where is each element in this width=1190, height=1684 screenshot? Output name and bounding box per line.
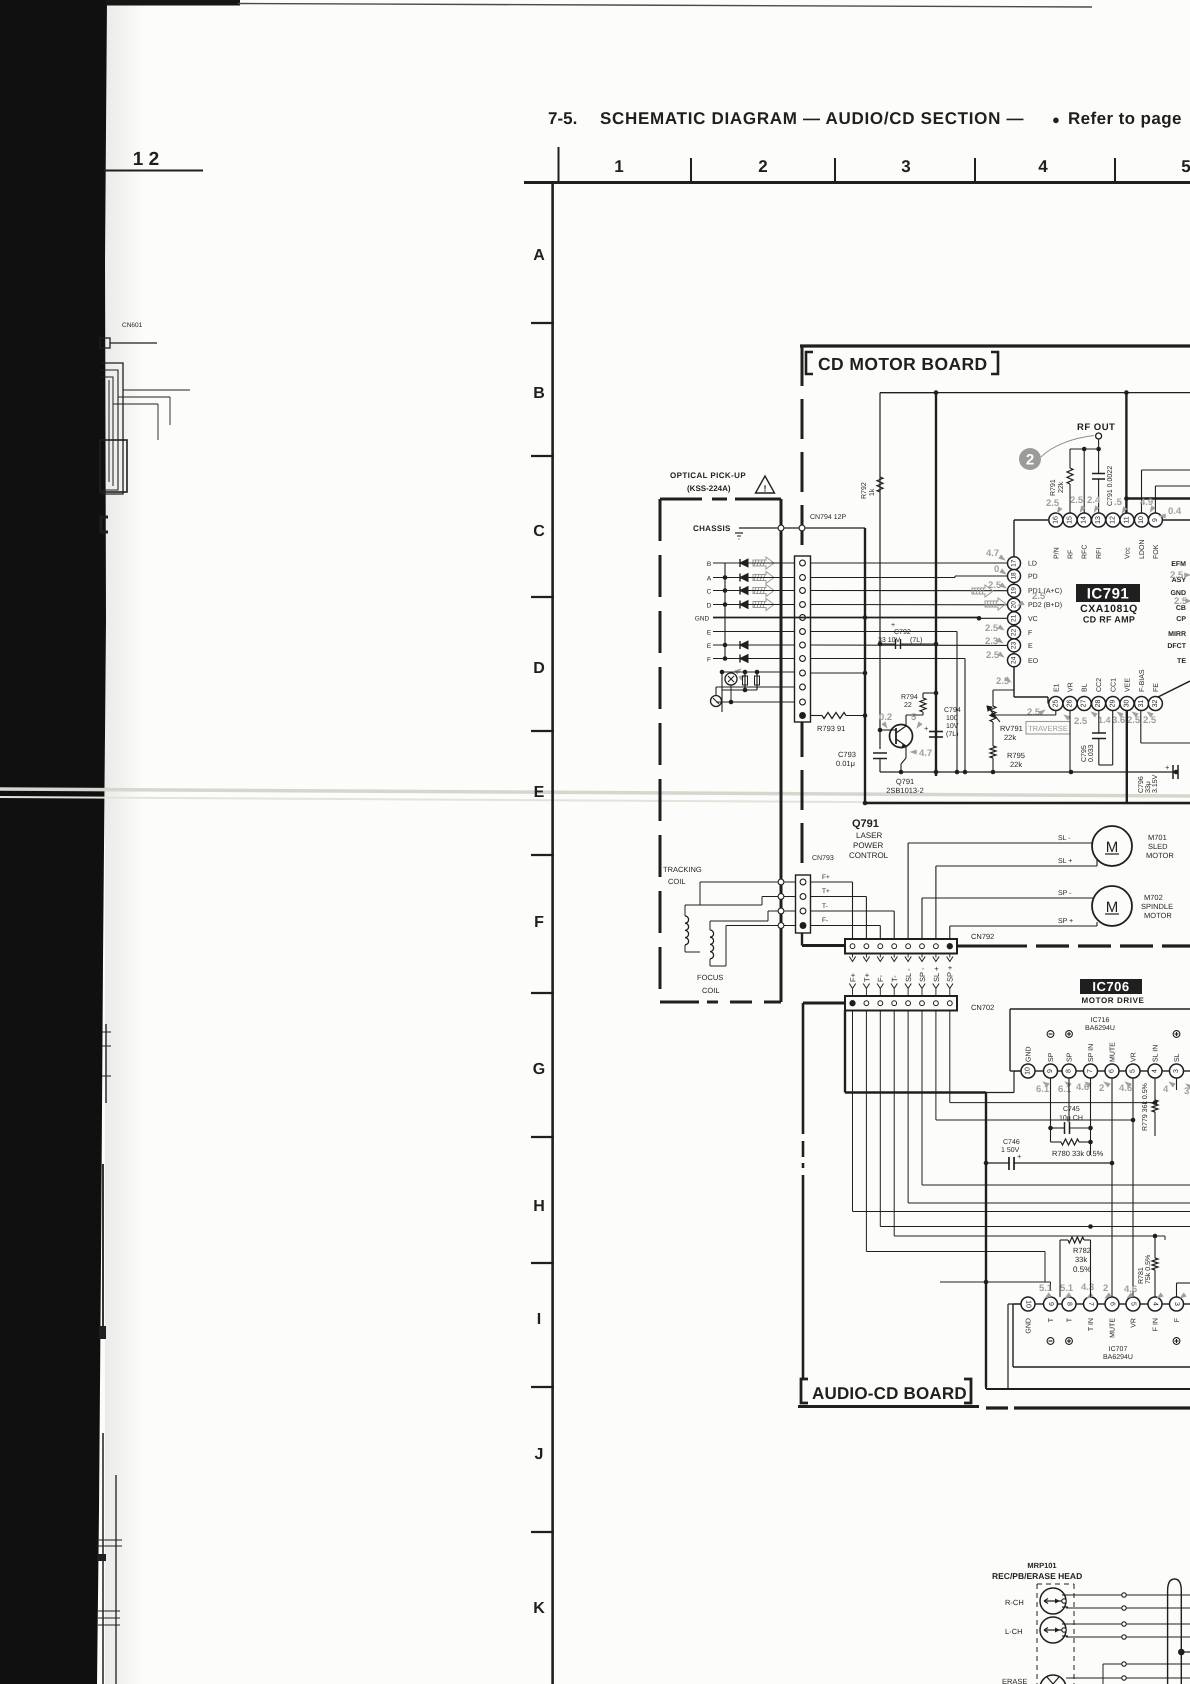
wire pin10 ic707 [1008,1303,1021,1305]
svg-text:9: 9 [1152,518,1159,522]
wire CN794 to IC791 rows [811,562,1008,564]
motor M701 sled [1092,826,1132,866]
gnd bus wire [713,617,979,619]
wire thick audio board left [844,1011,846,1093]
svg-text:PD2 (B+D): PD2 (B+D) [1028,601,1062,609]
svg-text:ERASE: ERASE [1002,1677,1027,1684]
svg-text:R794: R794 [901,694,918,701]
svg-text:Q791: Q791 [896,777,914,786]
svg-text:15: 15 [1067,516,1074,524]
svg-text:100: 100 [946,715,958,722]
svg-text:10V: 10V [946,723,959,730]
svg-text:R795: R795 [1007,751,1025,760]
svg-text:0.01μ: 0.01μ [836,759,855,768]
svg-text:F: F [707,657,711,664]
wire pin32 diag [1158,681,1190,697]
svg-text:T-: T- [822,903,828,910]
svg-text:2.5: 2.5 [1170,570,1184,581]
svg-text:19: 19 [1011,587,1018,595]
wire run t+ [865,1011,867,1252]
svg-text:OPTICAL PICK-UP: OPTICAL PICK-UP [670,471,746,480]
cable loop [1168,1579,1182,1684]
svg-text:RFI: RFI [1096,548,1103,559]
svg-text:10: 10 [1138,516,1145,524]
svg-text:4: 4 [1163,1084,1169,1095]
svg-text:CN793: CN793 [812,855,834,862]
svg-text:F-: F- [876,974,885,982]
svg-text:Vcc: Vcc [1125,547,1132,559]
svg-text:8: 8 [1066,1069,1073,1073]
svg-text:MOTOR: MOTOR [1144,911,1172,920]
svg-text:SL IN: SL IN [1153,1045,1160,1062]
svg-text:CC2: CC2 [1096,678,1103,692]
wire pin10 in [1142,469,1190,471]
connector CN794 pins [800,560,806,566]
svg-text:LASER: LASER [856,831,882,840]
scan shading near bar [0,0,1,1]
svg-text:LD: LD [1028,561,1037,568]
svg-text:RF: RF [1068,550,1075,559]
wire pin31 fbias [1140,711,1142,744]
svg-text:R791: R791 [1050,479,1057,496]
wire pin24 down [1013,667,1015,690]
svg-text:CXA1081Q: CXA1081Q [1080,603,1138,615]
svg-text:Refer to page: Refer to page [1068,109,1182,128]
wire pin9 down [1050,1078,1052,1142]
svg-text:FOK: FOK [1153,544,1160,559]
wire run t- [893,1011,895,1237]
resistor R782 33k [1060,1239,1068,1241]
connector CN792 pins [850,944,855,949]
L-CH head [1040,1617,1066,1643]
svg-text:R793 91: R793 91 [817,724,845,733]
svg-text:SP -: SP - [1058,890,1072,897]
svg-text:2.5: 2.5 [1046,498,1060,509]
svg-text:SL +: SL + [1058,858,1072,865]
IC716 body outline [1010,1008,1190,1010]
svg-text:+: + [924,724,929,733]
wire SP+ to motor [950,925,1097,927]
svg-text:VR: VR [1068,682,1075,692]
svg-text:IC716: IC716 [1091,1017,1110,1024]
svg-text:M702: M702 [1144,893,1163,902]
svg-text:5: 5 [1181,157,1190,176]
svg-text:13: 13 [1095,516,1102,524]
svg-text:33μ: 33μ [1145,781,1152,793]
svg-text:T IN: T IN [1088,1318,1095,1331]
svg-text:REC/PB/ERASE HEAD: REC/PB/ERASE HEAD [992,1571,1082,1581]
svg-text:MUTE: MUTE [1110,1318,1117,1338]
wire chassis to board [739,527,865,529]
svg-text:BA6294U: BA6294U [1085,1025,1115,1032]
svg-text:P/N: P/N [1052,547,1060,559]
svg-text:MRP101: MRP101 [1027,1561,1056,1570]
monitor photodiode PD [711,696,722,707]
wire pin25 jog [1055,711,1057,716]
svg-text:5.1: 5.1 [1039,1283,1053,1294]
wire pin6 MUTE long [1111,1078,1113,1297]
svg-text:D: D [707,603,712,610]
capacitor C795 0.033 [1098,711,1100,734]
svg-text:CHASSIS: CHASSIS [693,524,731,533]
wire thick rail y803 [865,802,1190,804]
paper crease row E [0,789,1190,796]
svg-text:SP: SP [1048,1052,1055,1062]
resistor R793 91 [811,715,822,717]
svg-text:3: 3 [901,157,910,176]
svg-text:GND: GND [1026,1318,1033,1334]
laser power wires [722,671,794,673]
light arrows pins19 20 [972,585,993,597]
head wires [1066,1594,1190,1596]
svg-text:R782: R782 [1073,1246,1091,1255]
svg-text:F: F [1174,1318,1181,1322]
svg-text:2.5: 2.5 [1127,715,1141,726]
svg-text:21: 21 [1011,614,1018,622]
head dashed box [1036,1584,1038,1684]
AUDIO-CD bottom dashed border [986,1406,1008,1409]
wire run sl+ [935,1011,937,1121]
svg-text:F+: F+ [848,972,857,982]
wire SL- to motor [908,842,1093,844]
optical pick-up box right edge [780,499,783,1002]
IC706 name plate [1080,979,1142,994]
callout 2 [1019,448,1041,470]
svg-text:.5: .5 [1114,497,1123,508]
resistor R792 1k [877,477,883,492]
grid column ticks [690,158,692,181]
wire pin3 stub [1176,1078,1178,1090]
wires pickup to CN793 [784,881,795,883]
svg-text:25: 25 [1052,700,1059,708]
svg-text:F-BIAS: F-BIAS [1139,669,1146,692]
IC791 left pins 17-24 [1008,557,1021,570]
svg-text:22k: 22k [1057,481,1065,493]
svg-text:R792: R792 [861,482,868,499]
svg-text:T+: T+ [862,972,871,982]
wire rfout bus [1070,448,1099,450]
svg-text:1 50V: 1 50V [1001,1147,1020,1154]
connector CN601 [100,338,110,348]
svg-text:9: 9 [1047,1302,1054,1306]
svg-text:Q791: Q791 [852,818,879,830]
wire CN793 stub down [801,933,803,946]
svg-text:3.15V: 3.15V [1152,774,1159,793]
svg-text:M701: M701 [1148,833,1167,842]
AUDIO-CD label underline [798,1405,979,1408]
wire thick to CN792 [802,944,845,947]
svg-text:C: C [707,589,712,596]
photodiode symbols [740,559,748,567]
svg-text:6: 6 [1109,1069,1116,1073]
svg-text:!: ! [764,484,767,494]
svg-text:CN601: CN601 [122,322,143,329]
grid row ticks [531,322,554,324]
capacitor C793 0.01u [873,752,887,754]
svg-text:RFC: RFC [1082,545,1089,559]
svg-text:C746: C746 [1003,1139,1020,1146]
svg-text:GND: GND [1026,1046,1033,1062]
svg-text:14: 14 [1081,516,1088,524]
light arrows into photodiodes [753,557,774,569]
svg-text:C745: C745 [1063,1106,1080,1113]
grid border horizontal [524,181,1190,184]
AUDIO-CD BOARD label [801,1379,808,1403]
svg-text:LDON: LDON [1139,540,1146,559]
svg-text:DFCT: DFCT [1167,643,1186,650]
wire run sp+ [949,1011,951,1103]
transistor Q791 2SB1013-2 [890,725,913,748]
connector CN702 body [845,996,957,1011]
svg-text:T+: T+ [822,888,830,895]
wire pin9 in [1155,485,1190,487]
svg-text:MUTE: MUTE [1110,1042,1117,1062]
svg-text:D: D [533,660,545,677]
svg-text:RF OUT: RF OUT [1077,422,1115,433]
motor M702 spindle [1092,886,1132,926]
svg-text:SLED: SLED [1148,842,1168,851]
svg-text:F: F [1028,630,1032,637]
svg-text:8: 8 [1066,1302,1073,1306]
svg-text:(7L): (7L) [946,730,958,738]
svg-text:4.7: 4.7 [986,548,999,559]
svg-text:2: 2 [1026,452,1034,469]
svg-text:2.5: 2.5 [1143,715,1157,726]
wires CN793 to CN792 [811,881,853,883]
svg-text:17: 17 [1011,559,1018,567]
IC791 bottom pins 25-32 [1049,697,1063,711]
svg-text:SP +: SP + [1058,918,1073,925]
svg-text:J: J [535,1446,544,1463]
svg-text:AUDIO-CD BOARD: AUDIO-CD BOARD [812,1384,967,1403]
IC716 pins 10-3 [1021,1064,1035,1078]
svg-text:10: 10 [1025,1300,1032,1308]
wire rv791 bottom [992,722,994,746]
svg-text:0: 0 [994,564,999,575]
wire run to pin9 ic707 [940,1281,1051,1283]
resistor R795 22k [990,746,996,758]
svg-text:MIRR: MIRR [1168,631,1186,638]
RF OUT terminal [1096,433,1102,439]
svg-text:K: K [533,1600,545,1617]
svg-text:FOCUS: FOCUS [697,973,723,982]
svg-text:12: 12 [1109,516,1116,524]
inter-connector signal arrows [852,954,854,958]
svg-text:B: B [707,561,711,568]
svg-text:4.3: 4.3 [1081,1282,1094,1293]
svg-text:5: 5 [1130,1302,1137,1306]
svg-text:SP -: SP - [918,967,927,982]
svg-text:F IN: F IN [1153,1318,1160,1331]
svg-text:SP IN: SP IN [1088,1044,1095,1062]
svg-text:SL: SL [1174,1053,1181,1062]
svg-text:C796: C796 [1138,776,1145,793]
svg-text:CD RF AMP: CD RF AMP [1083,615,1135,625]
resistor R794 22 [906,714,923,716]
svg-text:SL -: SL - [904,968,913,982]
svg-text:EFM: EFM [1171,561,1186,568]
svg-text:E: E [707,643,712,650]
svg-text:+: + [1165,763,1170,772]
svg-text:22: 22 [1011,628,1018,636]
svg-text:4.7: 4.7 [919,748,932,759]
wire SL+ to motor [936,865,1097,867]
grid corner tick [558,147,560,181]
svg-text:B: B [533,385,545,402]
svg-text:2.3: 2.3 [985,636,998,647]
svg-text:BA6294U: BA6294U [1103,1354,1133,1361]
wire CN702 left thick [803,1002,845,1005]
optical pick-up box left dashed edge [659,499,662,1002]
chassis ground symbol [735,532,743,534]
TRAVERSE tag [1026,722,1070,735]
svg-text:2.5: 2.5 [1027,707,1041,718]
svg-text:H: H [533,1198,545,1215]
svg-text:4: 4 [1152,1069,1159,1073]
svg-text:IC707: IC707 [1109,1346,1128,1353]
svg-text:30: 30 [1124,700,1131,708]
svg-text:L-CH: L-CH [1005,1627,1023,1636]
svg-text:C793: C793 [838,750,856,759]
svg-text:0.5%: 0.5% [1073,1265,1091,1274]
svg-text:33k: 33k [1075,1255,1087,1264]
CD MOTOR BOARD left dashed border [801,346,804,875]
svg-text:1.4: 1.4 [1098,715,1111,725]
svg-text:C795: C795 [1081,745,1088,762]
laser diode LD [725,673,737,685]
svg-text:0.2: 0.2 [879,712,892,723]
wire pin10 GND [1014,1070,1021,1072]
wire pin8 down [1068,1078,1070,1122]
svg-text:VEE: VEE [1125,678,1132,692]
svg-text:(7L): (7L) [910,636,922,644]
svg-text:6: 6 [1109,1302,1116,1306]
svg-text:2: 2 [758,157,767,176]
warning triangle [756,476,775,493]
svg-text:T: T [1067,1317,1074,1322]
svg-text:32: 32 [1152,700,1159,708]
svg-text:R780 33k 0.5%: R780 33k 0.5% [1052,1149,1104,1158]
svg-text:CD MOTOR BOARD: CD MOTOR BOARD [818,354,988,374]
svg-text:7: 7 [1087,1302,1094,1306]
CD MOTOR BOARD top border [800,344,1190,347]
svg-text:E1: E1 [1053,683,1060,692]
svg-text:2SB1013-2: 2SB1013-2 [886,786,924,795]
CD MOTOR BOARD bottom dashed border right [1036,944,1190,947]
svg-text:R-CH: R-CH [1005,1598,1024,1607]
wire thick vcc x865 [864,528,866,803]
svg-text:2: 2 [1099,1083,1104,1094]
focus coil [710,930,714,959]
svg-text:EO: EO [1028,658,1039,665]
svg-text:POWER: POWER [853,841,883,850]
svg-text:29: 29 [1109,700,1116,708]
voltage 4.7q [910,750,917,755]
black scan edge bar left [0,0,107,1684]
svg-text:COIL: COIL [668,877,686,886]
svg-text:10: 10 [1025,1067,1032,1075]
svg-text:1: 1 [614,157,623,176]
svg-text:T-: T- [890,975,899,982]
wire run sl- [907,1011,909,1204]
cutoff wire fragment mid [105,1024,107,1103]
connector CN793 pins [800,879,806,885]
svg-text:C792: C792 [894,629,911,636]
capacitor C791 0.0022 [1098,449,1100,474]
wire CN792 right thick [957,945,1027,948]
svg-text:CONTROL: CONTROL [849,851,889,860]
capacitor C796 33u [1171,772,1173,778]
svg-text:R779 36k 0.5%: R779 36k 0.5% [1141,1083,1149,1131]
op-amp IC791 body outline [1014,519,1048,521]
svg-text:CN794 12P: CN794 12P [810,514,847,521]
svg-text:C791 0.0022: C791 0.0022 [1107,466,1114,506]
scan streak top edge [106,0,240,6]
callout 2 leader [1041,436,1094,458]
svg-text:31: 31 [1138,700,1145,708]
svg-text:E: E [707,630,712,637]
svg-text:3.6: 3.6 [1112,715,1125,726]
svg-text:20: 20 [1011,601,1018,609]
svg-text:G: G [533,1061,545,1078]
svg-text:SL +: SL + [932,966,941,982]
svg-text:BL: BL [1082,683,1089,692]
resistor R780 33k [1051,1141,1062,1143]
svg-text:4: 4 [1038,157,1048,176]
wire thick vcc out right [1126,497,1190,499]
svg-text:FE: FE [1153,683,1160,692]
connector CN794 12P body [795,556,811,722]
svg-text:16: 16 [1052,516,1059,524]
svg-text:4: 4 [1152,1302,1159,1306]
svg-text:VR: VR [1131,1318,1138,1328]
svg-text:COIL: COIL [702,986,720,995]
potentiometer RV791 22k [990,706,996,722]
svg-text:VR: VR [1131,1052,1138,1062]
optical pick-up box top edge [660,498,702,501]
svg-text:TE: TE [1177,658,1186,665]
svg-text:F+: F+ [822,874,830,881]
svg-text:SL -: SL - [1058,835,1071,842]
svg-text:+: + [891,622,895,629]
svg-text:C794: C794 [944,707,961,714]
svg-text:F: F [534,914,544,931]
svg-text:IC706: IC706 [1092,979,1129,994]
svg-text:CC1: CC1 [1110,678,1117,692]
svg-text:2.5: 2.5 [1070,495,1084,506]
svg-text:1k: 1k [868,488,876,496]
svg-text:7: 7 [1087,1069,1094,1073]
svg-text:1 2: 1 2 [133,149,159,170]
svg-text:IC791: IC791 [1087,586,1130,603]
grid border vertical [551,181,554,1684]
svg-text:R781: R781 [1138,1267,1145,1284]
wire x880 ld bias [879,393,881,749]
svg-text:TRACKING: TRACKING [663,865,702,874]
svg-text:3: 3 [1173,1069,1180,1073]
IC707 pins 10-3 [1021,1297,1035,1311]
svg-text:CP: CP [1176,616,1186,623]
wire SP- to motor [922,897,1093,899]
svg-text:PD: PD [1028,574,1038,581]
svg-text:GND: GND [695,616,710,623]
svg-text:11: 11 [1124,516,1131,523]
svg-text:2: 2 [1103,1283,1108,1294]
wire pin26 down [1069,711,1071,773]
svg-text:I: I [537,1311,541,1328]
wire pin14 [1083,449,1085,513]
CD MOTOR BOARD label [806,352,813,374]
